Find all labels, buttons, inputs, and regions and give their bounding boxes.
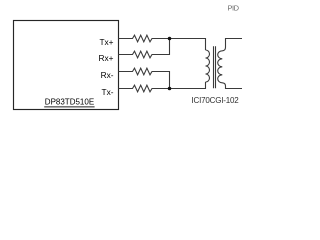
svg-text:PID: PID	[227, 4, 239, 13]
svg-text:DP83TD510E: DP83TD510E	[45, 97, 94, 106]
svg-text:Tx+: Tx+	[99, 37, 113, 47]
svg-text:ICI70CGI-102: ICI70CGI-102	[192, 96, 240, 105]
svg-text:Rx+: Rx+	[99, 53, 114, 63]
svg-text:Tx-: Tx-	[102, 87, 114, 97]
svg-text:Rx-: Rx-	[101, 70, 114, 80]
